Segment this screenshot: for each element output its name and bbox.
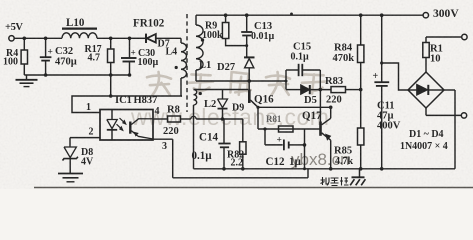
node bleed rail (303, 167, 306, 170)
node D9 rail (221, 117, 225, 121)
ground primary symbol (359, 169, 361, 178)
node C11 rail (380, 13, 384, 17)
wire C11 to bridge (382, 63, 408, 90)
transistor Q16 (248, 81, 250, 91)
wire +5V rail (14, 37, 62, 39)
diode D9 (222, 90, 224, 100)
node C32 bottom (44, 73, 48, 77)
terminal +5V (9, 36, 14, 41)
wire L4 return (111, 95, 182, 97)
pin 2 wire (70, 137, 100, 139)
wire bridge bottom to AC terminal (425, 108, 427, 115)
node R17 bottom (109, 73, 113, 77)
inductor L10 (62, 28, 97, 30)
diode D7 (130, 37, 146, 39)
node Q17 emitter rail (329, 167, 333, 171)
node R84 rail (359, 13, 363, 17)
background paper with site watermarks (0, 0, 473, 189)
winding L1 (195, 15, 197, 25)
wire R83 to node (346, 89, 361, 91)
node R82 bottom (241, 167, 245, 171)
node C14 bottom (222, 167, 226, 171)
terminal AC top (462, 34, 467, 39)
node R85 bottom (359, 167, 363, 171)
ground secondary (26, 75, 28, 80)
wire secondary ground rail (24, 74, 128, 76)
wire R8 drive (153, 118, 168, 120)
diode D5 (286, 89, 301, 91)
resistor R82 (242, 119, 244, 142)
capacitor C11 (381, 15, 383, 82)
bridge rectifier D1-D4 (408, 72, 444, 108)
node R83-R84 (359, 88, 363, 92)
wire primary ground rail (194, 168, 456, 170)
capacitor C12 (264, 129, 266, 145)
resistor R17 (110, 38, 112, 49)
capacitor C30 (129, 38, 131, 58)
node C15-D5 (319, 88, 323, 92)
wire R1 to AC terminal (426, 36, 462, 38)
zener D8 (69, 138, 71, 147)
L4 polarity dot (175, 66, 178, 69)
resistor R4 (23, 38, 25, 50)
wire bridge right to ground (444, 89, 455, 91)
node C11 bottom (380, 167, 384, 171)
opto light arrows (120, 118, 125, 122)
wire 300V rail (196, 14, 423, 16)
wire Q16 emitter (258, 106, 331, 108)
opto phototransistor (129, 122, 131, 134)
resistor R83 (331, 87, 346, 93)
wire opto pin3 return (153, 138, 173, 140)
node Q16 emitter (256, 106, 259, 109)
node Q16 collector (247, 79, 251, 83)
wire bleed vertical (304, 129, 306, 169)
scan speck on rail (290, 13, 293, 16)
node C12 left (263, 127, 266, 130)
node C11 tap (380, 61, 383, 64)
capacitor C14 (223, 119, 225, 144)
scan artifact bottom border line (34, 187, 473, 189)
capacitor C13 (246, 15, 248, 32)
node C30 bottom (128, 73, 132, 77)
L2 polarity dot (199, 92, 202, 95)
scan noise overlay (0, 0, 1, 1)
node Q17 collector (329, 106, 333, 110)
winding L4 (180, 38, 182, 43)
node C13 rail (245, 13, 249, 17)
op-amp IC1 H837 optocoupler box (100, 110, 153, 141)
opto LED (111, 110, 113, 120)
wire base network (258, 128, 321, 130)
transistor Q17 (319, 90, 321, 122)
winding L2 (194, 90, 197, 106)
capacitor C32 (45, 38, 47, 57)
node R9-C13 (245, 44, 248, 47)
node C30 top (128, 37, 132, 41)
node wireA end (285, 80, 288, 83)
diode D27 (244, 56, 255, 58)
node R4 top (23, 37, 27, 41)
wire base Q16 from L2 (194, 89, 249, 91)
node R17 top (109, 37, 113, 41)
wire R17 to opto pin1 (110, 75, 112, 96)
wire L10 to R17 (97, 37, 130, 39)
label primary-ground chinese (321, 177, 349, 186)
resistor R9 (225, 15, 227, 22)
wire L1 bottom (196, 80, 286, 82)
capacitor C15 (286, 69, 299, 71)
terminal 300V (423, 13, 428, 18)
node C32 top (44, 37, 48, 41)
resistor R1 (425, 58, 427, 73)
resistor R8 (168, 116, 181, 122)
L1 polarity dot (201, 38, 204, 41)
resistor R84 (360, 15, 362, 45)
ground D8 (58, 173, 83, 175)
terminal AC bottom (461, 113, 466, 118)
node feed (109, 94, 113, 98)
resistor R85 (360, 90, 362, 128)
wire C15 left leg (285, 70, 287, 90)
resistor R81 (279, 126, 294, 132)
node R9 rail (224, 13, 228, 17)
node C12 right (303, 143, 307, 147)
transformer core dashed (186, 14, 188, 112)
